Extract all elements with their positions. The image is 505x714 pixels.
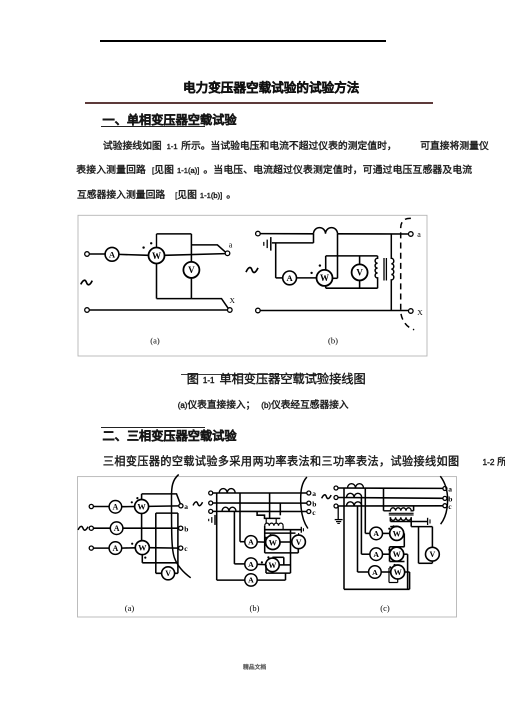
svg-text:A: A — [373, 529, 379, 538]
svg-text:b: b — [184, 525, 188, 534]
svg-text:X: X — [230, 296, 236, 305]
svg-text:(c): (c) — [380, 603, 390, 613]
svg-text:(b): (b) — [250, 603, 260, 613]
svg-text:c: c — [184, 544, 188, 553]
svg-text:A: A — [113, 503, 119, 512]
svg-text:W: W — [393, 529, 402, 538]
svg-text:a: a — [184, 502, 188, 511]
svg-text:(a): (a) — [150, 336, 160, 346]
svg-text:a: a — [229, 241, 233, 250]
svg-text:X: X — [417, 308, 423, 317]
svg-text:W: W — [394, 568, 403, 577]
svg-text:V: V — [356, 268, 363, 278]
svg-text:A: A — [248, 576, 254, 585]
svg-text:W: W — [320, 273, 329, 283]
svg-text:(b): (b) — [328, 336, 338, 346]
svg-text:W: W — [269, 538, 278, 547]
svg-text:V: V — [430, 550, 436, 559]
svg-text:W: W — [393, 550, 402, 559]
svg-text:A: A — [109, 249, 116, 259]
svg-text:V: V — [188, 265, 195, 275]
svg-text:a: a — [417, 230, 421, 239]
svg-text:W: W — [268, 561, 276, 570]
svg-text:W: W — [138, 544, 147, 553]
svg-text:A: A — [114, 524, 120, 533]
svg-text:a: a — [448, 485, 452, 494]
svg-text:A: A — [372, 568, 378, 577]
svg-text:c: c — [312, 508, 316, 517]
svg-text:A: A — [113, 544, 119, 553]
svg-text:A: A — [373, 550, 379, 559]
svg-text:A: A — [248, 560, 254, 569]
svg-text:(a): (a) — [125, 603, 135, 613]
svg-text:a: a — [312, 489, 316, 498]
svg-text:V: V — [165, 569, 171, 578]
svg-text:A: A — [286, 273, 293, 283]
svg-text:W: W — [152, 251, 161, 261]
svg-text:A: A — [248, 538, 254, 547]
svg-text:V: V — [296, 538, 302, 547]
svg-text:W: W — [137, 503, 146, 512]
